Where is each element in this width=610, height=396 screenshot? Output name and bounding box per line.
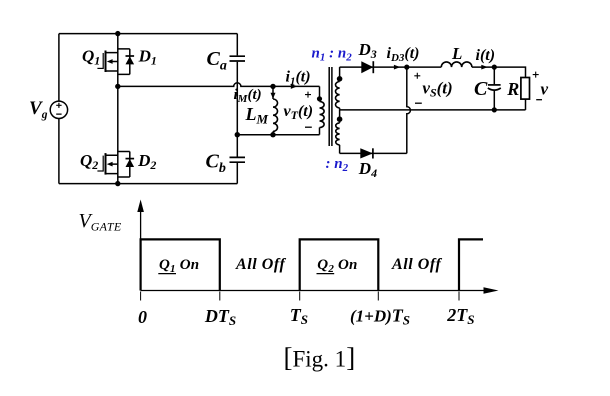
svg-text:: n2: : n2	[326, 156, 349, 174]
svg-text:i(t): i(t)	[476, 47, 496, 64]
current arrow i	[481, 65, 488, 70]
svg-text:[Fig. 1]: [Fig. 1]	[284, 343, 356, 373]
node: Ca-Cb junction	[235, 132, 240, 137]
secondary polarity dot (bottom)	[337, 116, 343, 122]
svg-text:Q1 On: Q1 On	[159, 257, 199, 275]
node: LM bottom	[270, 132, 275, 137]
wire: half-bridge vertical leg	[117, 34, 119, 184]
wire: cathode node down to D4 (hops over return rail)	[407, 67, 411, 153]
svg-text:VGATE: VGATE	[79, 210, 122, 234]
transformer core	[329, 67, 332, 146]
svg-text:0: 0	[138, 307, 147, 327]
node: LM top	[270, 84, 275, 89]
transistor Q1	[97, 51, 117, 73]
label vS(t) plus	[414, 73, 420, 79]
svg-text:Q1: Q1	[82, 47, 100, 68]
axis tick (1+D)Ts	[377, 292, 379, 301]
svg-text:iD3(t): iD3(t)	[387, 45, 420, 64]
transformer secondary winding (top half)	[336, 67, 340, 110]
transformer T primary winding	[320, 86, 325, 134]
svg-text:D4: D4	[358, 159, 377, 180]
capacitor Ca	[230, 34, 246, 157]
svg-text:Q2 On: Q2 On	[317, 257, 357, 275]
label vT(t) plus	[305, 92, 311, 98]
axis tick Ts	[299, 292, 301, 301]
svg-text:L: L	[451, 44, 462, 63]
svg-text:LM: LM	[245, 104, 269, 127]
node: bridge midpoint	[115, 84, 120, 89]
svg-text:2TS: 2TS	[446, 305, 474, 327]
diode D2 (body diode of Q2)	[118, 152, 134, 178]
svg-text:All Off: All Off	[391, 256, 442, 273]
horizontal axis	[141, 290, 484, 292]
inductor LM (magnetizing)	[273, 86, 278, 134]
gate waveform pulse 3 (next period)	[459, 239, 483, 290]
wire: L to R top corner	[472, 67, 526, 77]
resistor R	[521, 78, 530, 110]
diode D3	[361, 61, 373, 73]
wire: bridge midpoint to primary (hops over Ca-Cb leg)	[118, 83, 320, 87]
node: output top (L-C junction)	[492, 65, 497, 70]
svg-text:D1: D1	[138, 47, 157, 68]
transformer secondary winding (bottom half)	[336, 110, 340, 153]
svg-text:TS: TS	[290, 305, 308, 327]
gate waveform pulse 1 (Q1 on)	[141, 239, 220, 290]
svg-text:Ca: Ca	[207, 48, 227, 74]
label vS(t) minus	[415, 102, 422, 104]
current arrow iD3	[394, 65, 400, 70]
voltage source Vg	[50, 101, 67, 118]
vertical axis	[140, 205, 142, 291]
wire: return rail (center tap to R bottom)	[340, 109, 526, 111]
wire: secondary bottom to D4	[340, 152, 407, 154]
svg-text:D3: D3	[358, 40, 377, 61]
gate waveform pulse 2 (Q2 on)	[300, 239, 379, 290]
node: output bottom (C return)	[492, 107, 497, 112]
svg-text:v: v	[541, 79, 549, 98]
wire: top rail from Vg to Ca	[59, 33, 237, 35]
inductor L	[441, 62, 472, 67]
wire: left vertical (Vg branch)	[58, 34, 60, 184]
svg-text:D2: D2	[137, 151, 156, 172]
current arrow iM (down)	[271, 93, 276, 99]
transistor Q2	[97, 153, 117, 175]
axis tick 2Ts	[458, 292, 460, 301]
node: top rail / Q1 drain	[115, 31, 120, 36]
label vT(t) minus	[305, 126, 312, 128]
svg-text:Vg: Vg	[29, 98, 48, 121]
svg-text:Cb: Cb	[206, 150, 226, 176]
node: bottom rail / Q2 source	[115, 181, 120, 186]
diode D4	[360, 148, 373, 158]
svg-text:C: C	[474, 78, 488, 100]
svg-text:i1(t): i1(t)	[286, 69, 311, 88]
label v minus	[536, 99, 542, 101]
capacitor C	[488, 67, 501, 110]
label v plus	[533, 72, 539, 78]
svg-text:vS(t): vS(t)	[422, 79, 452, 100]
axis tick DTs	[219, 292, 221, 301]
primary polarity dot	[317, 96, 322, 101]
axis tick 0	[140, 292, 142, 301]
svg-text:n1 : n2: n1 : n2	[312, 46, 353, 64]
diode D1 (body diode of Q1)	[118, 49, 134, 75]
wire: secondary top to L (through D3)	[340, 66, 442, 68]
svg-text:R: R	[506, 79, 519, 99]
svg-text:Q2: Q2	[80, 151, 98, 172]
svg-text:vT(t): vT(t)	[284, 103, 314, 122]
svg-text:DTS: DTS	[204, 306, 236, 328]
capacitor Cb	[230, 157, 246, 183]
node: rectifier cathode junction	[404, 65, 409, 70]
wire: bottom rail	[59, 183, 237, 185]
svg-text:All Off: All Off	[235, 256, 286, 273]
current arrow i1	[291, 84, 298, 89]
svg-text:(1+D)TS: (1+D)TS	[350, 306, 410, 328]
secondary polarity dot (top)	[337, 76, 343, 82]
wire: Ca-Cb junction to primary bottom	[237, 134, 319, 136]
